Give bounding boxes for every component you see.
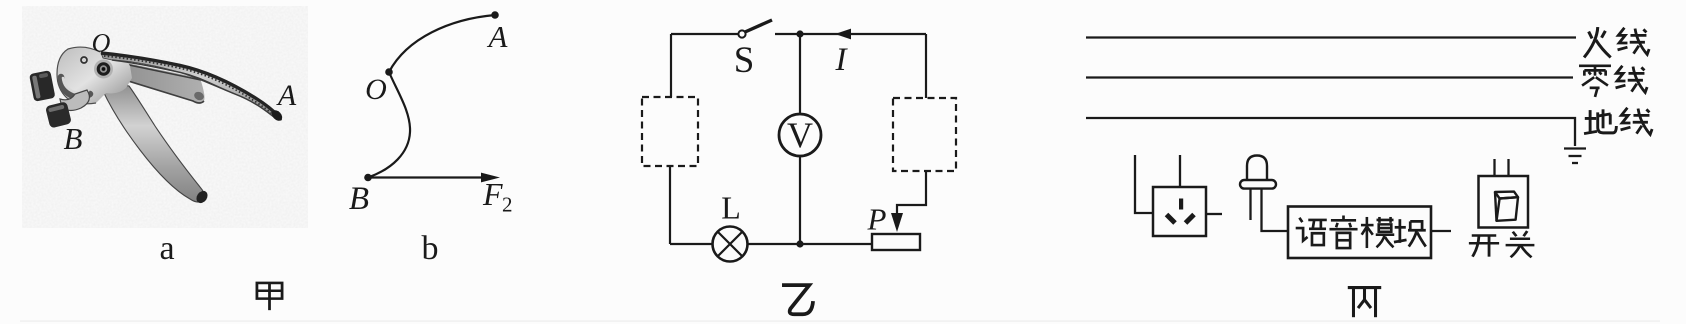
top wire right: [775, 33, 926, 35]
force arrow F2: [368, 176, 483, 178]
junction top: [796, 30, 803, 37]
socket right slot: [1186, 215, 1195, 224]
pivot bolt O: [94, 60, 113, 79]
pliers small hole: [81, 57, 87, 63]
pliers arm lower edge: [112, 60, 278, 120]
right wire down: [925, 34, 927, 98]
svg-text:2: 2: [502, 193, 513, 217]
neutral wire line: [1086, 76, 1573, 78]
junction bottom: [796, 240, 803, 247]
socket earth slot: [1179, 199, 1183, 210]
voice module text: [1296, 218, 1327, 245]
voltmeter V: [779, 114, 821, 156]
svg-text:B: B: [349, 181, 369, 217]
bottom wire: [670, 243, 713, 245]
svg-text:A: A: [276, 79, 297, 112]
left wire down: [670, 34, 672, 97]
rheostat slider arrow P: [891, 213, 903, 232]
point B: [364, 174, 372, 182]
svg-text:A: A: [487, 19, 509, 54]
lamp L: [713, 227, 748, 262]
photo background: [22, 6, 308, 228]
label dixian: [1584, 109, 1616, 133]
pliers upper jaw: [29, 70, 55, 102]
switch S blade: [745, 20, 772, 32]
point O: [385, 68, 393, 76]
LED flange: [1240, 180, 1276, 189]
socket box: [1153, 187, 1206, 236]
pliers upper handle tip: [270, 108, 284, 122]
svg-text:I: I: [835, 42, 849, 78]
label jia: [257, 283, 282, 310]
LED legs: [1249, 189, 1251, 220]
pliers lower hook: [60, 90, 89, 111]
pliers head plate: [57, 47, 132, 104]
pliers head C-shadow: [61, 77, 90, 97]
rocker button: [1495, 192, 1518, 221]
svg-text:a: a: [159, 230, 174, 267]
left dashed box: [642, 97, 698, 166]
pliers lower jaw: [45, 101, 72, 128]
switch S pivot: [738, 30, 745, 37]
pliers lower handle tip: [194, 189, 210, 205]
svg-text:b: b: [422, 230, 439, 267]
earth wire line: [1086, 118, 1575, 146]
pliers serrated edge: [101, 53, 279, 117]
rheostat body: [872, 234, 920, 250]
svg-text:S: S: [734, 40, 755, 81]
svg-text:P: P: [867, 202, 887, 237]
wall switch box: [1479, 176, 1529, 228]
voice module right stub: [1431, 230, 1451, 232]
scan artifact bottom: [20, 321, 1660, 322]
earth ground symbol: [1564, 147, 1586, 149]
LED dome: [1247, 156, 1267, 181]
svg-text:O: O: [365, 73, 387, 106]
svg-text:B: B: [64, 121, 83, 156]
middle branch wires: [799, 34, 801, 114]
current arrow I: [835, 29, 851, 40]
top wire left: [671, 33, 738, 35]
label lingxian: [1579, 66, 1611, 97]
left vertical lower: [669, 166, 671, 244]
pliers lower handle: [103, 85, 205, 202]
lever curve: [368, 15, 495, 178]
svg-text:V: V: [787, 115, 813, 155]
right dashed box: [893, 98, 956, 171]
svg-text:F: F: [482, 176, 503, 212]
voice module box: [1288, 207, 1431, 259]
label bing: [1348, 288, 1381, 318]
crossing wedge: [112, 60, 205, 103]
live wire line: [1086, 36, 1576, 38]
label kaiguan: [1469, 236, 1499, 257]
svg-text:L: L: [721, 190, 741, 226]
svg-text:O: O: [92, 29, 111, 58]
wall switch wires: [1493, 159, 1495, 176]
label yi: [782, 285, 813, 314]
point A: [491, 11, 499, 19]
label huoxian: [1584, 27, 1611, 57]
socket wires: [1179, 155, 1181, 187]
pliers upper handle: [101, 53, 282, 120]
socket left slot: [1167, 215, 1176, 224]
